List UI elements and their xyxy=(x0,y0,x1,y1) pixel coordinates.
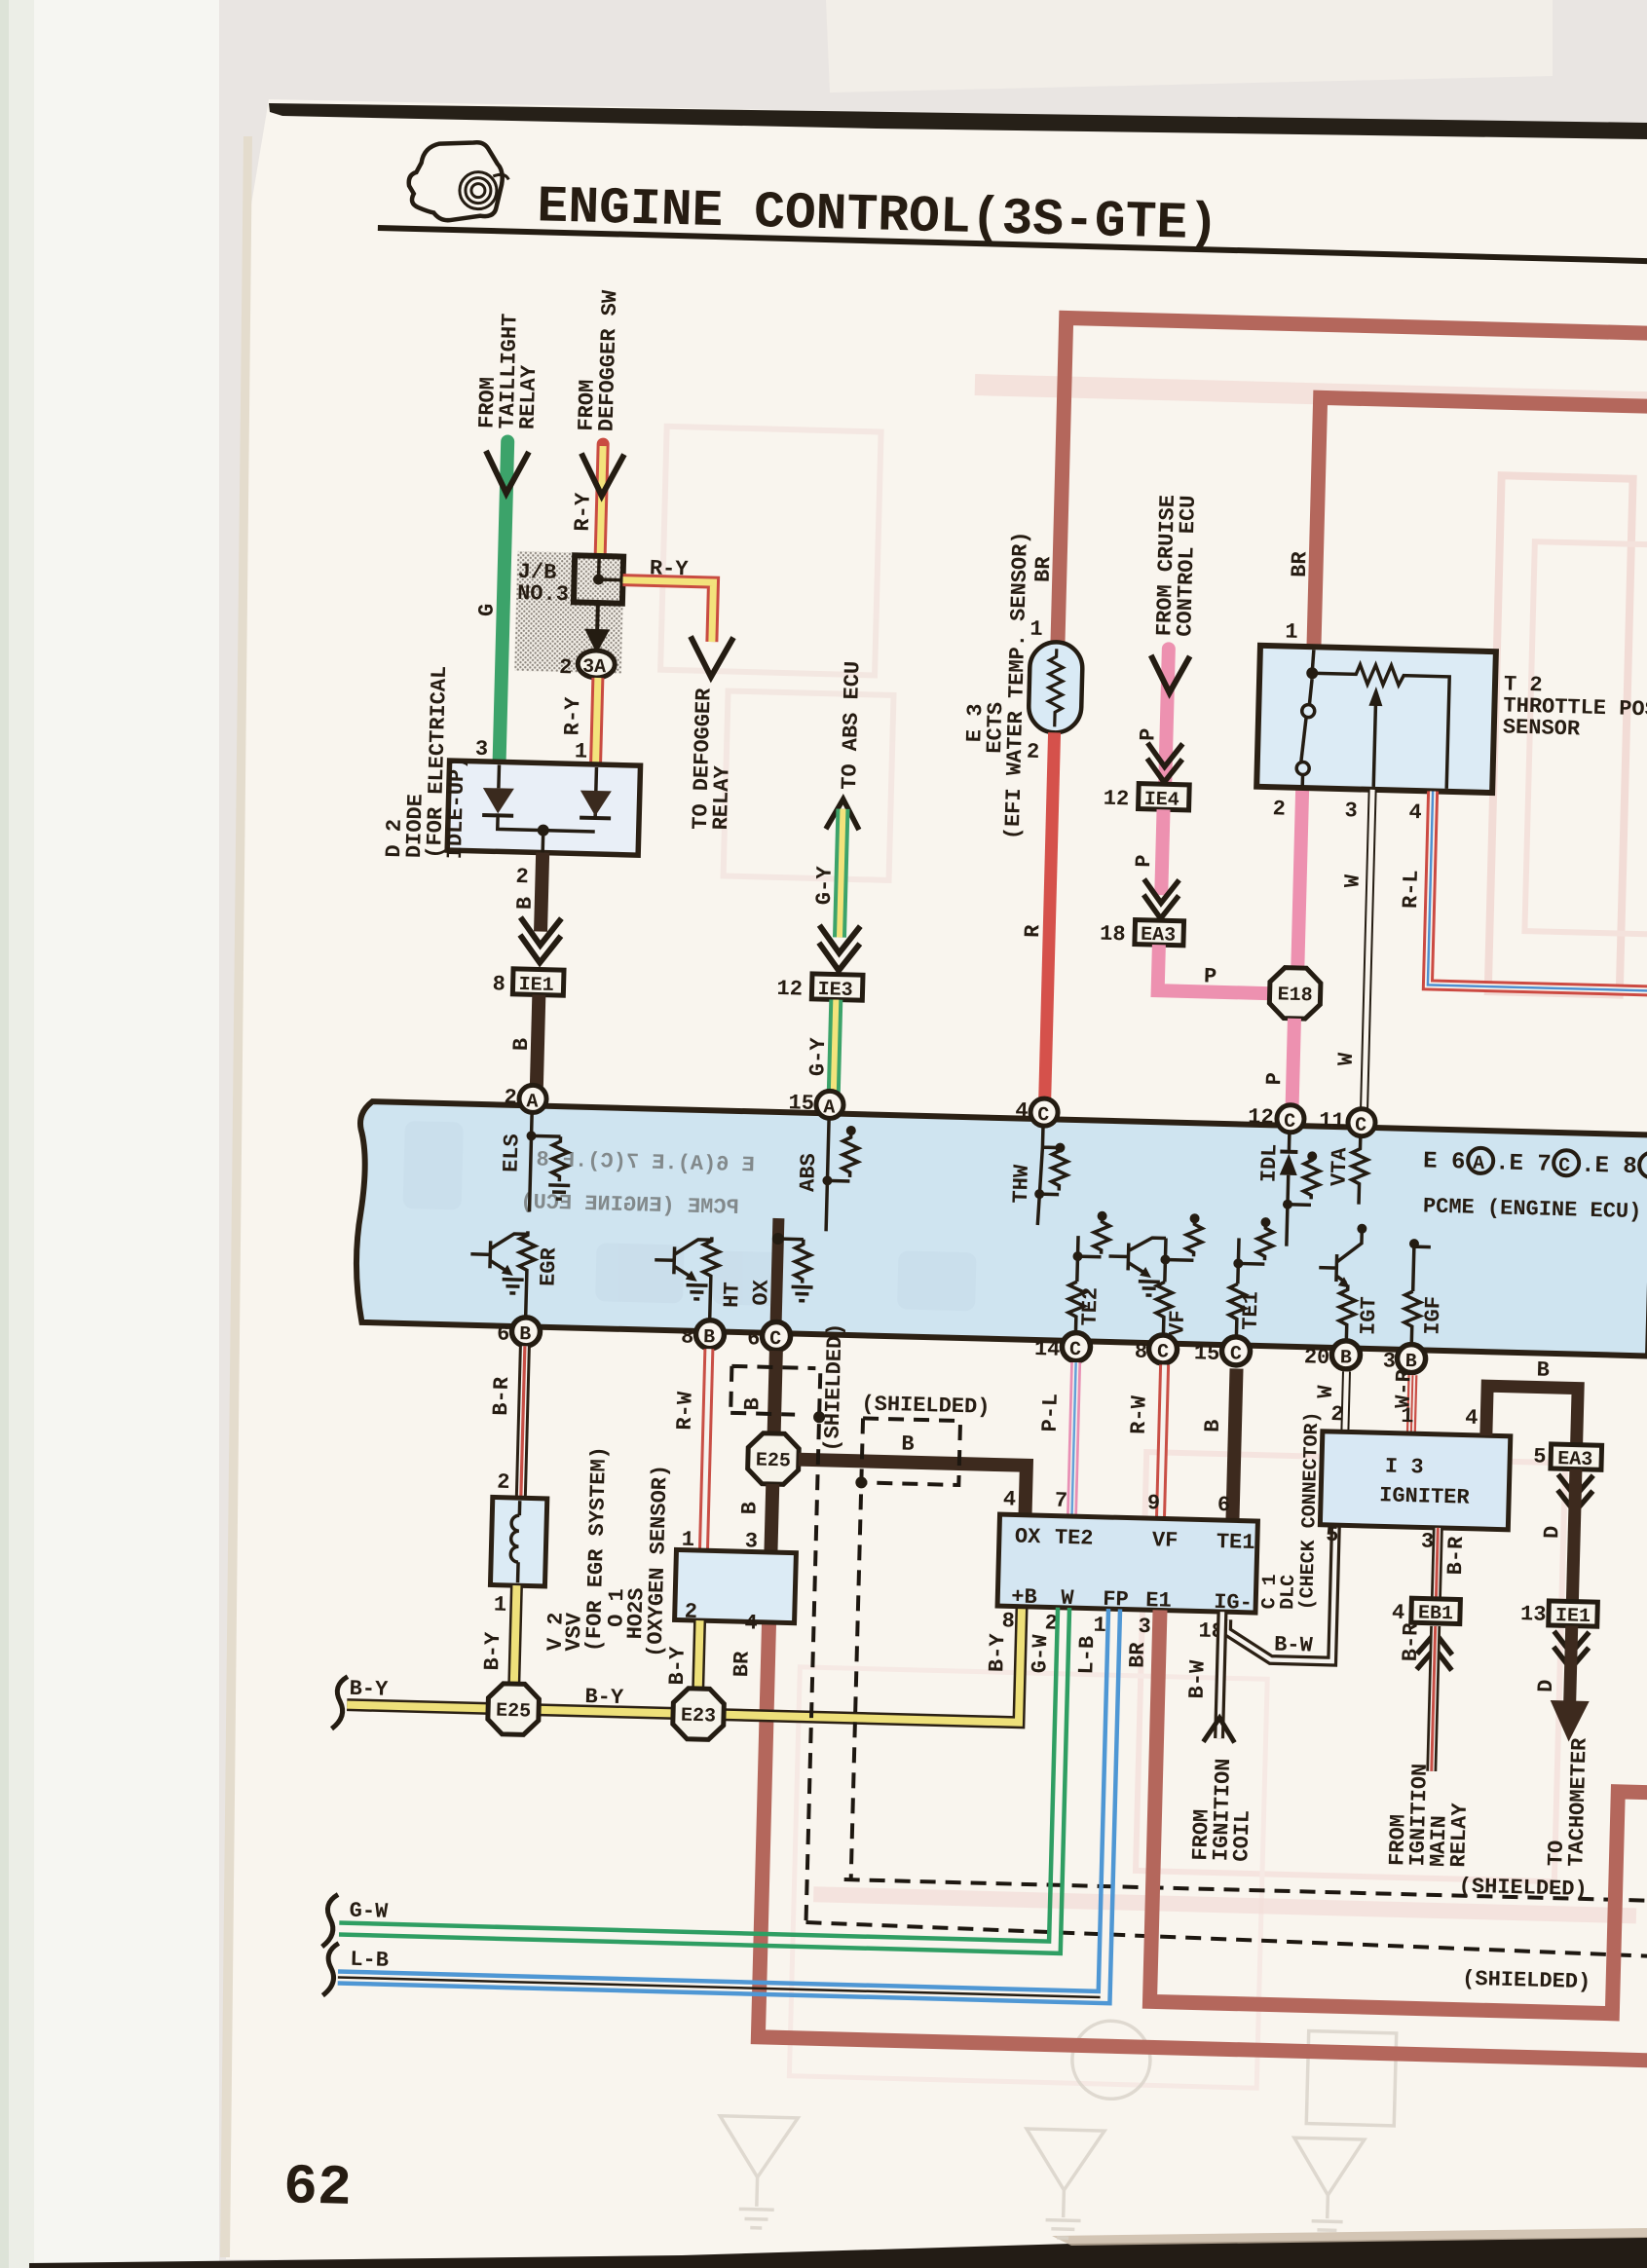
D2 left diode xyxy=(482,788,514,814)
svg-text:6: 6 xyxy=(497,1322,510,1347)
HT ground xyxy=(686,1285,707,1300)
wire B (15C to C1 pin 6) xyxy=(1232,1368,1236,1520)
wire B-Y (HO2S pin 2 to E23) xyxy=(698,1620,700,1692)
svg-text:C: C xyxy=(1157,1341,1170,1363)
svg-text:11: 11 xyxy=(1319,1109,1345,1134)
svg-text:2: 2 xyxy=(1272,797,1286,821)
svg-text:(SHIELDED): (SHIELDED) xyxy=(861,1392,991,1419)
svg-text:B-R: B-R xyxy=(1399,1621,1424,1661)
D2 internal wires xyxy=(497,764,596,854)
svg-text:R-W: R-W xyxy=(673,1391,698,1431)
svg-text:B: B xyxy=(703,1326,716,1349)
svg-text:D: D xyxy=(1540,1525,1564,1539)
shield node dot 1 xyxy=(813,1411,825,1423)
VSV V2 box xyxy=(490,1497,546,1585)
svg-text:IE3: IE3 xyxy=(817,979,853,1002)
octagon E25 (ground) xyxy=(487,1683,539,1734)
svg-text:2: 2 xyxy=(559,655,573,680)
left brace L-B xyxy=(322,1943,338,1995)
wire B (IE1 to ECU pin 2A) xyxy=(537,995,539,1087)
svg-text:4: 4 xyxy=(1465,1406,1479,1431)
svg-text:TE2: TE2 xyxy=(1055,1526,1094,1551)
icon spiral xyxy=(459,171,508,209)
svg-text:B: B xyxy=(740,1397,765,1411)
igniter I3 box xyxy=(1320,1431,1510,1530)
IGT circuit (transistor) xyxy=(1317,1231,1362,1349)
tan sliver above bottom edge right xyxy=(1052,2228,1647,2246)
connector 5 EA3 xyxy=(1551,1444,1602,1469)
label FROM DEFOGGER SW xyxy=(575,288,623,431)
svg-text:G-Y: G-Y xyxy=(805,1036,831,1076)
svg-text:B: B xyxy=(519,1323,532,1346)
OX circuit xyxy=(775,1218,778,1333)
svg-text:4: 4 xyxy=(1408,800,1422,825)
svg-text:(SHIELDED): (SHIELDED) xyxy=(1462,1967,1591,1994)
ghost bleed-through: pink band top right xyxy=(975,374,1647,414)
THW circuit xyxy=(1037,1126,1068,1226)
wire P (EA3 to E18) xyxy=(1158,945,1272,993)
svg-text:B: B xyxy=(513,897,538,911)
svg-text:1: 1 xyxy=(1285,619,1298,644)
label V2 VSV (FOR EGR SYSTEM) xyxy=(543,1445,613,1653)
svg-text:D: D xyxy=(1534,1679,1558,1692)
title engine icon xyxy=(408,140,504,221)
connector 4 EB1 xyxy=(1411,1598,1461,1623)
chevron above EA3 xyxy=(1143,879,1179,919)
label TO DEFOGGER RELAY xyxy=(689,688,737,831)
svg-text:P: P xyxy=(1136,727,1160,741)
D2 right diode xyxy=(580,791,612,817)
svg-text:14: 14 xyxy=(1034,1337,1061,1362)
svg-text:A: A xyxy=(1473,1153,1485,1175)
small shield box around B (6C-E25) xyxy=(730,1366,815,1415)
svg-text:DEFOGGER SW: DEFOGGER SW xyxy=(595,289,623,432)
svg-text:7: 7 xyxy=(1055,1489,1068,1513)
pin 6 B (EGR) xyxy=(511,1317,541,1346)
svg-text:6: 6 xyxy=(1217,1493,1231,1517)
T2 box xyxy=(1256,646,1496,793)
svg-text:IGNITER: IGNITER xyxy=(1379,1483,1471,1509)
svg-text:L-B: L-B xyxy=(1074,1636,1100,1675)
wire BR (HO2S pin4 to bottom frame, right to page edge) xyxy=(758,1622,1647,2061)
wire B (E25 right to C1 pin 4) xyxy=(798,1460,1027,1515)
svg-text:8: 8 xyxy=(1001,1609,1015,1633)
svg-text:1: 1 xyxy=(1401,1404,1414,1429)
pin 15 A xyxy=(816,1091,844,1119)
arrowhead up to ABS ECU xyxy=(826,799,860,830)
svg-text:HT: HT xyxy=(720,1282,745,1308)
svg-text:1: 1 xyxy=(494,1593,507,1617)
svg-text:3A: 3A xyxy=(582,656,607,680)
pin 4 C xyxy=(1030,1098,1059,1127)
wire R-W (8B to HO2S pin 1) xyxy=(703,1349,708,1550)
wire B (diode to IE1) xyxy=(541,853,543,932)
arrowhead on wire G xyxy=(485,451,529,494)
IGF circuit xyxy=(1404,1242,1431,1351)
svg-text:.E 7: .E 7 xyxy=(1495,1150,1552,1177)
svg-text:C: C xyxy=(1230,1343,1243,1365)
ghost faint blue marks top left quadrant xyxy=(655,427,901,880)
svg-text:E1: E1 xyxy=(1145,1588,1172,1614)
arrow to tachometer xyxy=(1550,1700,1590,1742)
svg-text:CONTROL ECU: CONTROL ECU xyxy=(1173,495,1201,637)
svg-text:BR: BR xyxy=(1125,1641,1150,1668)
wire B (E25 down to HO2S pin 3) xyxy=(770,1484,772,1552)
svg-text:2: 2 xyxy=(497,1470,510,1495)
svg-text:BR: BR xyxy=(1031,555,1057,582)
VF circuit (transistor) xyxy=(1106,1218,1202,1344)
svg-text:IGF: IGF xyxy=(1421,1296,1446,1335)
T2 wiper arrow xyxy=(1368,687,1383,706)
svg-text:R: R xyxy=(1021,923,1045,938)
shield node dot 2 xyxy=(855,1476,867,1488)
left brace G-W xyxy=(322,1894,338,1947)
label J/B NO.3 xyxy=(517,560,570,607)
svg-text:NO.3: NO.3 xyxy=(517,581,569,607)
svg-text:2: 2 xyxy=(1330,1402,1344,1427)
svg-text:B-W: B-W xyxy=(1274,1633,1314,1658)
pin 11 C xyxy=(1348,1108,1376,1136)
ghost mirrored text inside band xyxy=(520,1147,755,1220)
svg-text:G-W: G-W xyxy=(1028,1634,1053,1674)
svg-text:E25: E25 xyxy=(756,1450,792,1473)
label E3 ECTS (EFI WATER TEMP. SENSOR) xyxy=(960,530,1033,840)
wire B-R (6B to VSV pin 2) xyxy=(521,1346,525,1498)
svg-text:3: 3 xyxy=(475,737,489,762)
svg-text:15: 15 xyxy=(1194,1341,1220,1366)
fuse 3A circle xyxy=(578,650,616,678)
chevron arrow on B xyxy=(519,917,561,963)
svg-text:8: 8 xyxy=(1135,1340,1148,1364)
wire D (EA3 to IE1) xyxy=(1572,1469,1576,1602)
wire G (green, taillight relay to diode pin 3) xyxy=(500,442,508,762)
pin 3 B (IGF) xyxy=(1397,1344,1426,1373)
stipple halftone region around J/B xyxy=(514,551,624,674)
C1 bottom row labels xyxy=(1011,1584,1253,1615)
svg-text:THW: THW xyxy=(1009,1164,1034,1204)
wire B-Y horizontal (to C1 +B) xyxy=(347,1589,1022,1723)
svg-text:B-W: B-W xyxy=(1185,1659,1211,1699)
svg-text:BR: BR xyxy=(730,1651,755,1678)
J/B node dot xyxy=(593,574,604,584)
wire BR (top frame to ECTS pin 1) xyxy=(1058,317,1647,659)
wire P (E18 to ECU 12C) xyxy=(1292,1019,1294,1107)
svg-text:15: 15 xyxy=(788,1091,814,1116)
chevron arrow above IE3 xyxy=(818,925,860,971)
wire W (T2 pin 3 to ECU 11C) xyxy=(1365,790,1373,1111)
svg-text:TO ABS ECU: TO ABS ECU xyxy=(838,661,865,791)
pin 2 A xyxy=(519,1085,547,1113)
svg-text:OX: OX xyxy=(749,1279,774,1306)
OX ground xyxy=(791,1286,812,1301)
wire P (cruise ECU to IE4) xyxy=(1165,649,1169,782)
wire from J/B to fuse xyxy=(595,603,600,631)
wire R (ECTS to ECU 4C) xyxy=(1045,732,1055,1098)
C1 top row labels xyxy=(1015,1525,1255,1555)
label E6 A E7 C E8 B xyxy=(1423,1146,1647,1180)
svg-text:B-R: B-R xyxy=(1443,1536,1469,1576)
label FROM IGNITION COIL xyxy=(1188,1758,1256,1862)
svg-text:P: P xyxy=(1204,964,1217,988)
svg-text:VF: VF xyxy=(1165,1310,1190,1336)
TE2 circuit xyxy=(1067,1217,1109,1342)
label T2 THROTTLE POSITION SENSOR xyxy=(1503,672,1647,744)
svg-text:R-Y: R-Y xyxy=(650,556,690,581)
pin 14 C (TE2) xyxy=(1062,1332,1091,1361)
wire B-Y (VSV to E25) xyxy=(514,1585,517,1688)
label C1 DLC (CHECK CONNECTOR) xyxy=(1258,1410,1324,1611)
svg-text:5: 5 xyxy=(1533,1444,1547,1469)
svg-text:C: C xyxy=(1284,1111,1296,1134)
svg-text:IE1: IE1 xyxy=(1555,1605,1591,1628)
svg-text:RELAY: RELAY xyxy=(709,764,735,830)
svg-text:B-Y: B-Y xyxy=(584,1685,624,1710)
svg-text:4: 4 xyxy=(1392,1601,1405,1625)
page stack left strips xyxy=(0,0,9,2268)
svg-text:B-Y: B-Y xyxy=(665,1646,691,1686)
wire R-Y branch (J/B to defogger relay) xyxy=(621,580,714,642)
svg-text:C: C xyxy=(1069,1339,1082,1361)
svg-text:B-Y: B-Y xyxy=(480,1631,505,1671)
svg-text:4: 4 xyxy=(744,1611,758,1635)
svg-text:13: 13 xyxy=(1520,1602,1547,1627)
svg-text:P: P xyxy=(1132,854,1156,868)
ghost bleed frame right upper xyxy=(1488,475,1633,994)
svg-text:B: B xyxy=(1340,1347,1353,1369)
label O1 HO2S (OXYGEN SENSOR) xyxy=(604,1464,673,1658)
svg-text:EA3: EA3 xyxy=(1141,924,1177,948)
wire B-R (EB1 down) xyxy=(1432,1626,1436,1771)
arrowhead on P xyxy=(1150,655,1190,693)
T2 potentiometer track xyxy=(1309,663,1449,789)
HT circuit (transistor) xyxy=(653,1236,720,1332)
white band of next page visible at top xyxy=(826,0,1553,93)
svg-text:G: G xyxy=(474,603,499,616)
svg-text:6: 6 xyxy=(747,1326,761,1351)
ghost horizontal pink band lower xyxy=(813,1886,1636,1923)
svg-text:20: 20 xyxy=(1304,1345,1330,1370)
svg-text:B: B xyxy=(509,1038,534,1052)
wire B-W (C1 IG- to igniter pin 5) xyxy=(1226,1524,1336,1661)
octagon E18 xyxy=(1269,967,1321,1019)
svg-text:IDLE-UP): IDLE-UP) xyxy=(443,756,470,859)
HO2S oxygen sensor box xyxy=(675,1549,797,1622)
EGR ground xyxy=(502,1280,523,1294)
connector 12 IE4 xyxy=(1139,784,1190,810)
pin 8 C (VF) xyxy=(1148,1335,1178,1364)
svg-text:G-W: G-W xyxy=(349,1899,389,1924)
connector 12 IE3 xyxy=(811,974,863,1000)
svg-text:R-L: R-L xyxy=(1399,870,1424,909)
svg-text:+B: +B xyxy=(1011,1584,1037,1610)
svg-text:B: B xyxy=(901,1431,915,1456)
C1 DLC box xyxy=(997,1514,1257,1613)
svg-text:8: 8 xyxy=(681,1324,694,1349)
svg-text:IE1: IE1 xyxy=(518,974,554,997)
svg-text:12: 12 xyxy=(1248,1105,1274,1131)
ghost blobs inside band xyxy=(400,1121,980,1311)
wire B (igniter pin 4 to EA3) xyxy=(1486,1386,1579,1446)
svg-text:2: 2 xyxy=(515,865,529,889)
svg-text:I 3: I 3 xyxy=(1385,1454,1424,1479)
svg-text:C: C xyxy=(1355,1115,1367,1137)
book bottom dark edge xyxy=(29,2237,1647,2268)
svg-text:R-W: R-W xyxy=(1127,1394,1152,1434)
svg-text:COIL: COIL xyxy=(1229,1810,1254,1862)
svg-text:W: W xyxy=(1314,1385,1338,1399)
svg-text:12: 12 xyxy=(1103,787,1129,812)
label FROM CRUISE CONTROL ECU xyxy=(1152,495,1201,637)
svg-text:1: 1 xyxy=(1029,617,1043,642)
svg-text:IGT: IGT xyxy=(1356,1296,1381,1335)
svg-text:.E 8: .E 8 xyxy=(1581,1153,1637,1180)
svg-text:OX: OX xyxy=(1015,1525,1042,1550)
pin 12 C xyxy=(1277,1104,1305,1133)
wire B-R (igniter pin 3 to EB1) xyxy=(1436,1528,1438,1599)
svg-text:(OXYGEN SENSOR): (OXYGEN SENSOR) xyxy=(644,1465,673,1658)
svg-text:TE2: TE2 xyxy=(1078,1287,1104,1326)
svg-text:C: C xyxy=(769,1328,782,1351)
svg-text:FP: FP xyxy=(1103,1587,1129,1613)
arrowhead from ignition coil xyxy=(1203,1718,1235,1743)
wire P (T2 pin 2 to E18) xyxy=(1297,788,1302,971)
svg-text:P: P xyxy=(1262,1072,1287,1086)
VTA circuit xyxy=(1351,1135,1368,1204)
wire G-Y (IE3 to ECU pin 15A) xyxy=(834,1000,836,1093)
svg-text:62: 62 xyxy=(282,2156,352,2221)
wire R-L (T2 pin 4 right to page edge) xyxy=(1428,792,1647,991)
svg-text:E18: E18 xyxy=(1277,984,1313,1007)
svg-text:ELS: ELS xyxy=(500,1134,525,1172)
svg-text:VF: VF xyxy=(1152,1528,1179,1553)
pin 6 C (OX) xyxy=(762,1321,791,1351)
connector 13 IE1 xyxy=(1549,1601,1598,1626)
svg-text:IDL: IDL xyxy=(1257,1143,1283,1182)
svg-text:W: W xyxy=(1341,874,1366,888)
chevron below IE1 xyxy=(1553,1631,1590,1669)
wire W (20B to igniter pin 2) xyxy=(1345,1371,1347,1431)
svg-text:IE4: IE4 xyxy=(1143,789,1179,812)
svg-text:4: 4 xyxy=(1015,1098,1029,1123)
svg-text:EB1: EB1 xyxy=(1418,1602,1454,1625)
ghost bleed frame right lower xyxy=(1136,1452,1565,1881)
wire G-Y vertical xyxy=(840,809,842,938)
D2 center node xyxy=(538,824,549,836)
wire P (IE4 to EA3) xyxy=(1161,809,1163,895)
ELS circuit xyxy=(529,1112,569,1212)
svg-text:B-R: B-R xyxy=(489,1376,514,1416)
svg-text:A: A xyxy=(823,1097,836,1119)
svg-text:B: B xyxy=(737,1502,762,1515)
connector 18 EA3 xyxy=(1135,920,1184,946)
solid arrow into fuse xyxy=(584,629,611,654)
page left edge shadow xyxy=(220,136,252,2257)
ECU band body xyxy=(355,1101,1647,1357)
svg-text:L-B: L-B xyxy=(350,1948,389,1973)
label FROM IGNITION MAIN RELAY xyxy=(1385,1763,1474,1868)
svg-text:ABS: ABS xyxy=(796,1153,821,1192)
ABS circuit xyxy=(826,1118,859,1232)
wire R-W (8C to C1 pin 9) xyxy=(1160,1364,1164,1518)
EGR circuit (transistor) xyxy=(468,1230,536,1327)
wire B-W (C1 IG- down to ignition coil) xyxy=(1219,1612,1222,1738)
connector 8 IE1 xyxy=(512,969,564,995)
left brace of B-Y line xyxy=(332,1676,348,1729)
svg-text:B-Y: B-Y xyxy=(349,1677,389,1702)
junction block J/B No.3 xyxy=(574,555,623,603)
svg-text:RELAY: RELAY xyxy=(516,364,543,429)
J/B internal wire xyxy=(599,559,621,580)
octagon E23 (ground) xyxy=(672,1688,724,1739)
VSV coil xyxy=(518,1501,520,1582)
big shield box around B (E25-C1) xyxy=(861,1418,960,1485)
book top dark edge xyxy=(269,103,1647,139)
ECTS sensor E3 capsule xyxy=(1029,642,1083,733)
svg-text:3: 3 xyxy=(1421,1529,1435,1553)
wire R-Y (fuse to diode pin 1) xyxy=(596,678,598,764)
VF ground xyxy=(1138,1282,1159,1296)
pin 20 B (IGT) xyxy=(1331,1340,1361,1369)
svg-text:2: 2 xyxy=(504,1086,517,1110)
wire L-B (C1 FP down and left to brace) xyxy=(338,1589,1120,2004)
svg-text:TACHOMETER: TACHOMETER xyxy=(1564,1737,1591,1867)
title underline xyxy=(378,225,1647,265)
svg-text:2: 2 xyxy=(1027,740,1040,764)
wire BR (C1 E1 down, right, up to page edge) xyxy=(1149,1610,1647,2014)
svg-text:12: 12 xyxy=(776,977,803,1002)
label D2 DIODE (FOR ELECTRICAL IDLE-UP) xyxy=(382,664,472,859)
svg-text:1: 1 xyxy=(1093,1614,1106,1638)
svg-text:W: W xyxy=(1334,1052,1359,1066)
svg-text:TE1: TE1 xyxy=(1239,1291,1264,1330)
svg-text:E25: E25 xyxy=(496,1700,532,1724)
ELS ground xyxy=(548,1185,570,1200)
svg-text:E 6: E 6 xyxy=(1423,1148,1466,1175)
label TO TACHOMETER xyxy=(1544,1736,1591,1867)
svg-text:W-R: W-R xyxy=(1392,1368,1417,1408)
C1 pin numbers top xyxy=(1003,1487,1231,1517)
svg-text:P-L: P-L xyxy=(1038,1394,1064,1432)
pin 15 C (TE1) xyxy=(1221,1337,1251,1366)
diode D2 box (for electrical idle-up) xyxy=(447,761,640,855)
svg-text:VTA: VTA xyxy=(1327,1146,1352,1186)
svg-text:R-Y: R-Y xyxy=(571,492,596,532)
svg-text:EGR: EGR xyxy=(537,1246,562,1286)
svg-text:R-Y: R-Y xyxy=(560,696,585,736)
ECTS resistor zigzag xyxy=(1048,649,1064,726)
long dashed vertical (shield 2) xyxy=(851,1418,863,1879)
pin 8 B (HT) xyxy=(695,1320,725,1349)
wire D (IE1 to tachometer) xyxy=(1570,1626,1572,1703)
svg-text:1: 1 xyxy=(575,739,588,763)
svg-text:B: B xyxy=(1536,1357,1550,1382)
T2 idle switch xyxy=(1309,679,1312,704)
svg-text:E23: E23 xyxy=(681,1705,717,1729)
octagon E25 (shielded B) xyxy=(747,1432,799,1484)
svg-text:W: W xyxy=(1061,1586,1075,1611)
svg-text:EA3: EA3 xyxy=(1557,1448,1593,1471)
svg-text:TE1: TE1 xyxy=(1217,1530,1255,1555)
arrowhead on wire R-Y xyxy=(580,453,624,496)
chevron below EA3 xyxy=(1557,1474,1593,1512)
svg-text:B: B xyxy=(1201,1419,1225,1432)
svg-text:4: 4 xyxy=(1003,1487,1017,1511)
chevron below EB1 (from main relay) xyxy=(1417,1632,1453,1670)
svg-text:(SHIELDED): (SHIELDED) xyxy=(1458,1875,1588,1902)
svg-text:G-Y: G-Y xyxy=(812,865,838,905)
ghost triangles bottom (bleed) xyxy=(717,2011,1397,2247)
svg-text:C: C xyxy=(1037,1104,1050,1127)
